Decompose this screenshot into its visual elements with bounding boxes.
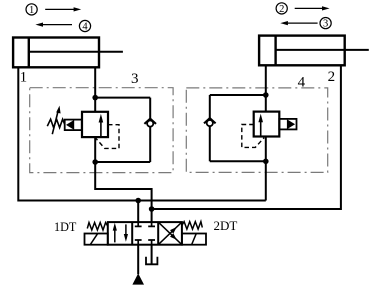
valve right position cross arrow 1: [158, 222, 182, 245]
check valve V4: [204, 118, 216, 126]
pilot line valve 4 (dashed): [242, 125, 264, 148]
wire T port: [151, 245, 153, 265]
solenoid valve body: [108, 222, 182, 245]
pump pressure source triangle: [132, 273, 144, 284]
sequence valve 4 flow arrow: [258, 114, 263, 137]
cylinder 1: [13, 38, 123, 68]
wire cyl1 cap-side long line: [18, 67, 265, 200]
arrow direction-3: [280, 21, 317, 25]
valve centre blocked port T top-right: [148, 222, 155, 226]
svg-text:2: 2: [328, 69, 336, 85]
sequence valve 3 body: [82, 112, 108, 137]
valve centre blocked port T bottom-right: [148, 240, 155, 245]
node junction 3 bottom: [92, 159, 98, 165]
valve right position cross arrow 2: [158, 222, 182, 245]
sequence valve 3 pilot box: [65, 120, 82, 131]
wire cyl1 rod-side port to valve3 inlet: [94, 67, 96, 112]
wire valve4 top bypass: [210, 94, 267, 96]
svg-text:1: 1: [29, 5, 34, 16]
node circled-3: [320, 18, 331, 30]
valve centre blocked port T bottom-left: [135, 240, 142, 245]
node circled-1: [26, 4, 37, 16]
wire P port: [137, 245, 139, 275]
svg-text:2DT: 2DT: [214, 218, 238, 233]
sequence valve 4 body: [254, 112, 280, 137]
pilot line valve 3 (dashed): [96, 125, 119, 149]
spring right of valve: [182, 222, 202, 230]
spring of valve 3: [47, 119, 64, 127]
sequence valve 3 pilot triangle: [66, 120, 74, 130]
wire A port drop: [137, 201, 139, 223]
valve left position down arrow: [124, 224, 128, 241]
arrow direction-2: [295, 6, 330, 10]
svg-text:2: 2: [279, 4, 284, 15]
tank: [146, 257, 157, 265]
spring left of valve: [87, 223, 108, 231]
svg-text:1DT: 1DT: [54, 220, 77, 234]
node junction B: [149, 206, 155, 212]
wire cyl2 cap-side port to valve4 inlet: [265, 65, 267, 112]
node junction 4 bottom: [263, 159, 269, 165]
arrow direction-1: [45, 7, 81, 11]
node junction A: [135, 198, 141, 204]
wire check-valve branch 3: [149, 98, 151, 162]
solenoid 1DT box: [85, 234, 108, 245]
cylinder 2: [259, 36, 369, 66]
wire check-valve branch 4: [209, 95, 211, 161]
wire valve3 bottom bypass: [94, 161, 150, 163]
wire valve4 bottom bypass: [210, 160, 267, 162]
sequence valve 4 pilot triangle: [287, 119, 295, 129]
svg-text:4: 4: [82, 22, 88, 33]
valve centre blocked port T top-left: [135, 222, 142, 226]
enclosure box 4 (dash-dot): [186, 88, 327, 172]
svg-text:3: 3: [131, 71, 139, 87]
solenoid 2DT box: [182, 234, 206, 245]
wire valve3 outlet down: [94, 137, 96, 190]
enclosure box 3 (dash-dot): [30, 88, 173, 173]
wire valve3 to B port: [95, 189, 151, 222]
node circled-4: [79, 20, 90, 32]
wire valve4 outlet down: [265, 136, 267, 200]
svg-text:3: 3: [323, 19, 328, 30]
sequence valve 3 flow arrow: [99, 114, 104, 137]
node junction 3 top: [92, 95, 98, 101]
valve left position up arrow: [113, 223, 117, 243]
adjustment arrow of valve 3: [52, 106, 60, 135]
arrow direction-4: [35, 23, 72, 27]
node circled-2: [276, 3, 287, 15]
node junction 4 top: [263, 92, 269, 98]
wire B to cyl2 rod-side: [152, 65, 341, 209]
svg-text:1: 1: [20, 70, 28, 86]
sequence valve 4 pilot box: [279, 119, 296, 129]
check valve V3: [144, 119, 156, 127]
wire valve3 top bypass: [94, 97, 150, 99]
